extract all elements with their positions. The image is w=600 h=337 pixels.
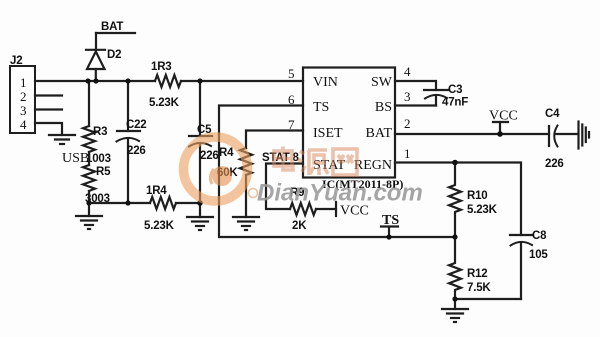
VCC tap BAT xyxy=(499,122,501,134)
svg-text:4: 4 xyxy=(404,64,411,79)
wire diode to rail xyxy=(95,69,97,81)
svg-text:226: 226 xyxy=(127,145,146,157)
wire TS net xyxy=(219,106,455,238)
J2 pin numbers xyxy=(20,75,27,132)
wire bottom rail right xyxy=(176,202,200,204)
R12 labels xyxy=(467,268,491,294)
svg-text:BAT: BAT xyxy=(366,126,393,141)
svg-text:105: 105 xyxy=(529,249,548,261)
capacitor C8 xyxy=(510,234,533,236)
svg-text:1R3: 1R3 xyxy=(151,61,172,73)
resistor 1R3 xyxy=(155,75,181,87)
svg-text:3: 3 xyxy=(20,103,27,118)
svg-text:47nF: 47nF xyxy=(442,97,468,109)
svg-text:SW: SW xyxy=(371,75,393,90)
IC pin names xyxy=(313,75,393,173)
svg-text:C4: C4 xyxy=(545,108,560,120)
svg-text:R3: R3 xyxy=(93,126,107,138)
R10 labels xyxy=(467,190,498,216)
svg-text:226: 226 xyxy=(200,150,219,162)
wire rail to VIN pin xyxy=(181,80,303,82)
1R3 value label xyxy=(149,61,180,109)
wire BAT to diode xyxy=(95,33,97,50)
wire R9 to VCC xyxy=(316,208,336,210)
svg-text:R5: R5 xyxy=(96,166,111,178)
wire R5 bottom to ground xyxy=(88,191,90,216)
svg-text:TS: TS xyxy=(313,100,329,115)
capacitor C5 xyxy=(199,81,201,136)
svg-text:5.23K: 5.23K xyxy=(144,220,175,232)
TS tap xyxy=(381,225,398,227)
svg-text:2: 2 xyxy=(404,116,411,131)
R4 labels xyxy=(217,147,238,179)
diode D2 xyxy=(86,49,105,51)
svg-text:VCC: VCC xyxy=(489,109,518,124)
svg-text:REGN: REGN xyxy=(354,158,392,173)
svg-text:ISET: ISET xyxy=(313,126,343,141)
watermark chinese characters xyxy=(274,147,357,176)
svg-text:J2: J2 xyxy=(10,55,22,67)
wire BS to C3 xyxy=(395,104,436,106)
svg-text:6: 6 xyxy=(288,92,295,107)
svg-text:BAT: BAT xyxy=(101,21,123,33)
svg-text:1: 1 xyxy=(20,75,27,90)
wire R3 to R5 xyxy=(88,152,90,165)
svg-text:5.23K: 5.23K xyxy=(149,97,180,109)
wire R4 to ground xyxy=(245,175,247,217)
VCC tick R9 xyxy=(335,202,337,216)
wire bottom rail left xyxy=(89,202,150,204)
watermark logo ring xyxy=(184,137,258,201)
resistor 1R4 xyxy=(150,197,176,209)
svg-text:BS: BS xyxy=(375,100,392,115)
svg-text:1: 1 xyxy=(404,146,411,161)
R9 labels xyxy=(290,187,307,232)
svg-text:C3: C3 xyxy=(448,84,462,96)
resistor R5 xyxy=(83,165,95,191)
ground under R12 xyxy=(442,309,468,322)
svg-text:1R4: 1R4 xyxy=(146,185,167,197)
resistor R10 xyxy=(449,163,461,238)
capacitor C22 xyxy=(127,81,129,131)
ground right of C4 xyxy=(579,122,590,149)
wire top rail VIN net xyxy=(35,80,155,82)
IC pin numbers xyxy=(288,64,411,161)
svg-text:226: 226 xyxy=(545,158,564,170)
svg-text:5.23K: 5.23K xyxy=(467,204,498,216)
C4 labels xyxy=(545,108,564,170)
resistor R12 xyxy=(449,237,461,309)
svg-text:TS: TS xyxy=(382,213,399,228)
svg-text:R12: R12 xyxy=(467,268,488,280)
1R4 labels xyxy=(144,185,175,232)
resistor R3 xyxy=(83,126,95,152)
wire SW to C3 xyxy=(395,81,436,90)
svg-text:2: 2 xyxy=(20,89,27,104)
wire STAT to R9 xyxy=(266,164,303,210)
svg-text:2K: 2K xyxy=(292,220,307,232)
svg-text:3: 3 xyxy=(404,89,411,104)
C5 label xyxy=(197,124,219,162)
C8 labels xyxy=(529,230,548,261)
svg-text:4: 4 xyxy=(20,117,27,132)
connector J2 xyxy=(10,66,35,133)
C3 labels xyxy=(442,84,468,109)
resistor R9 xyxy=(290,203,316,215)
wire ISET to R4 xyxy=(246,131,303,149)
C22 label xyxy=(126,119,147,157)
wire REGN net xyxy=(395,163,521,236)
wire BAT net xyxy=(395,133,549,135)
svg-text:VIN: VIN xyxy=(313,75,338,90)
BAT rail xyxy=(96,32,135,34)
svg-text:5: 5 xyxy=(288,66,295,81)
wire C8 bottom to R12 xyxy=(455,298,521,300)
IC U1 box xyxy=(303,68,395,178)
svg-text:C22: C22 xyxy=(126,119,147,131)
wire J2 pin3 stub xyxy=(35,108,62,110)
ground under J2 pin4 xyxy=(49,135,75,144)
capacitor C3 xyxy=(424,89,449,91)
svg-text:C8: C8 xyxy=(532,230,547,242)
ground under R5 xyxy=(76,216,102,229)
ground under R4 xyxy=(233,217,259,230)
svg-text:R10: R10 xyxy=(467,190,488,202)
svg-text:7.5K: 7.5K xyxy=(467,282,491,294)
wire J2 pin2 stub xyxy=(35,94,62,96)
ground under C5 xyxy=(187,217,213,230)
wire R3 top lead xyxy=(88,81,90,126)
resistor R4 xyxy=(240,148,252,175)
wire J2 pin4 to ground xyxy=(35,123,62,134)
svg-text:D2: D2 xyxy=(107,49,121,61)
svg-text:R4: R4 xyxy=(219,147,234,159)
capacitor C4 xyxy=(548,126,550,146)
svg-text:DianYuan.com: DianYuan.com xyxy=(257,180,423,207)
svg-text:7: 7 xyxy=(288,117,295,132)
